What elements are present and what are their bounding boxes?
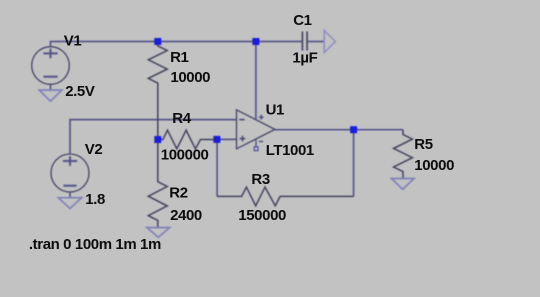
- ground (V1): [39, 90, 62, 101]
- svg-text:V1: V1: [64, 32, 82, 49]
- resistor R4: [158, 130, 217, 149]
- node junction J2: [252, 38, 259, 45]
- wire V2 ground stub: [69, 192, 71, 198]
- wire opamp output to R5: [275, 129, 403, 131]
- op-amp U1: [237, 110, 275, 149]
- svg-text:R5: R5: [414, 136, 432, 153]
- wire opamp V+ supply from top rail: [255, 42, 257, 120]
- svg-text:1µF: 1µF: [292, 49, 317, 66]
- svg-text:100000: 100000: [161, 147, 209, 164]
- svg-text:R4: R4: [172, 110, 191, 127]
- wire top rail V1 to C1: [51, 42, 303, 47]
- resistor R3: [217, 187, 354, 206]
- wire V2 to opamp inverting input: [70, 120, 237, 154]
- ground (V2): [58, 198, 81, 209]
- wire output node down to R3: [353, 130, 355, 197]
- resistor R1: [148, 42, 167, 140]
- resistor R5: [394, 130, 413, 179]
- svg-text:2.5V: 2.5V: [65, 83, 95, 100]
- wire node B to opamp noninverting input: [217, 138, 237, 140]
- op-amp U1 V- open pin square: [254, 147, 258, 151]
- voltage source V1: [32, 47, 70, 85]
- wire C1 to output port: [307, 41, 324, 43]
- svg-text:C1: C1: [293, 12, 311, 29]
- wire node B down to R3: [216, 139, 218, 196]
- voltage source V2: [51, 154, 89, 192]
- svg-text:V2: V2: [85, 141, 103, 158]
- ground (R2): [147, 228, 170, 238]
- node junction J4: [213, 136, 220, 143]
- svg-text:150000: 150000: [238, 207, 286, 224]
- svg-text:10000: 10000: [414, 157, 454, 174]
- svg-text:10000: 10000: [170, 69, 210, 86]
- svg-text:LT1001: LT1001: [266, 142, 314, 159]
- output port: [324, 30, 335, 52]
- svg-text:R2: R2: [169, 185, 187, 202]
- svg-text:R3: R3: [251, 171, 269, 188]
- svg-text:U1: U1: [266, 102, 284, 119]
- node junction J5: [350, 126, 357, 133]
- node junction J1: [154, 38, 161, 45]
- svg-text:.tran 0 100m 1m 1m: .tran 0 100m 1m 1m: [29, 236, 161, 253]
- node junction J3: [154, 136, 161, 143]
- svg-text:1.8: 1.8: [85, 191, 105, 208]
- resistor R2: [148, 140, 167, 228]
- svg-text:R1: R1: [170, 49, 188, 66]
- svg-text:2400: 2400: [170, 207, 202, 224]
- capacitor C1: [301, 32, 303, 51]
- ground (R5): [392, 179, 415, 190]
- op-amp U1 V- pin stub: [255, 140, 257, 147]
- wire V1 ground stub: [50, 84, 52, 90]
